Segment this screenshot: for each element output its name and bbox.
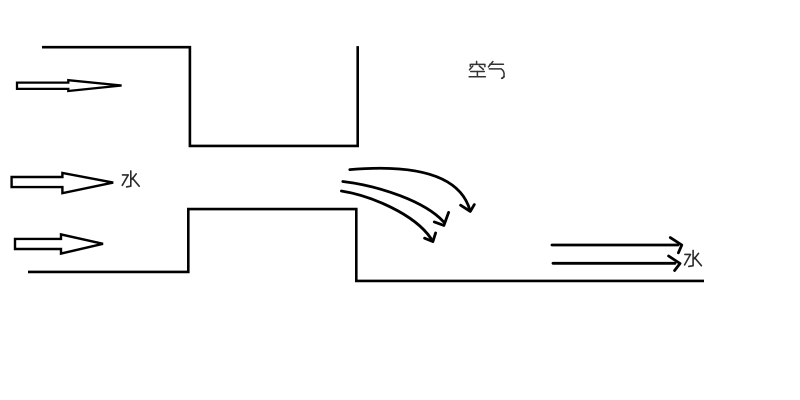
arrow inlet flow top (thin hollow block arrow) (17, 80, 122, 91)
arrowhead jet streamline 2 (434, 212, 448, 225)
arrowhead jet streamline 1 (461, 205, 475, 212)
wire jet streamline 1 (top curved arrow shaft) (350, 168, 470, 210)
wire lower duct wall (bottom-left inlet wall, up lower block left edge, across its top, down right edge, out along downstream floor) (28, 209, 704, 281)
wire downstream flow line 1 (upper straight arrow shaft) (552, 244, 678, 247)
label 空气 air (drawn glyphs) (469, 61, 504, 78)
arrowhead downstream flow line 1 (670, 238, 682, 253)
arrow inlet flow middle (hollow block arrow) (12, 173, 114, 193)
label 水 water (left, drawn glyph) (122, 171, 139, 187)
label 水 water (right, drawn glyph) (685, 250, 702, 266)
wire downstream flow line 2 (lower straight arrow shaft) (553, 262, 675, 265)
wire jet streamline 3 (bottom curved arrow shaft) (341, 191, 431, 239)
arrow inlet flow bottom (hollow block arrow) (15, 234, 103, 253)
arrowhead downstream flow line 2 (669, 256, 680, 271)
wire upper duct wall (top-left inlet wall, down left side of upper block, along its underside, up its right edge) (42, 46, 358, 146)
arrowhead jet streamline 3 (425, 233, 436, 242)
wire jet streamline 2 (middle curved arrow shaft) (343, 182, 444, 222)
